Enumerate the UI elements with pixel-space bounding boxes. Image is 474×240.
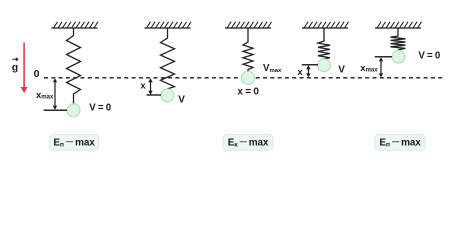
mass ball 5 xyxy=(392,50,405,63)
svg-text:0: 0 xyxy=(34,68,40,80)
svg-text:Eп — max: Eп — max xyxy=(53,137,95,149)
spring 2 xyxy=(161,28,175,89)
svg-text:Eп — max: Eп — max xyxy=(379,137,421,149)
svg-text:V: V xyxy=(178,95,185,106)
svg-text:Vmax: Vmax xyxy=(263,63,282,74)
mass ball 1 xyxy=(67,104,80,117)
box Ep max (left) xyxy=(49,135,98,151)
ceiling 3 xyxy=(225,22,272,28)
svg-text:V: V xyxy=(338,64,345,75)
svg-text:g: g xyxy=(12,62,18,74)
svg-text:x: x xyxy=(297,67,303,78)
spring 5 (fully compressed) xyxy=(391,28,406,50)
Xmax arrow 5 xyxy=(380,59,382,77)
spring 1 (stretched) xyxy=(67,28,81,104)
ceiling 4 xyxy=(302,22,349,28)
x arrow 2 xyxy=(150,80,152,93)
ceiling 5 xyxy=(375,22,422,28)
svg-text:x: x xyxy=(140,80,146,91)
tick at ball 5 level xyxy=(375,56,392,58)
box Ep max (right) xyxy=(375,135,425,151)
mass ball 3 xyxy=(242,72,255,85)
mass ball 2 xyxy=(161,89,174,102)
tick at ball 1 level xyxy=(44,109,67,111)
svg-text:x = 0: x = 0 xyxy=(237,87,259,98)
svg-text:V = 0: V = 0 xyxy=(89,102,111,113)
svg-text:V = 0: V = 0 xyxy=(418,51,440,62)
spring 4 (compressed) xyxy=(318,28,330,59)
mass ball 4 xyxy=(318,59,331,72)
svg-text:Eк — max: Eк — max xyxy=(228,137,269,149)
box Ek max (middle) xyxy=(223,135,273,151)
tick at ball 4 level xyxy=(302,64,318,66)
tick at ball 2 level xyxy=(147,94,162,96)
x arrow 4 xyxy=(307,67,309,77)
svg-text:xmax: xmax xyxy=(360,63,378,74)
Xmax arrow 1 xyxy=(54,80,56,108)
spring 3 (natural length) xyxy=(243,28,253,72)
svg-text:xmax: xmax xyxy=(36,90,54,101)
ceiling 2 xyxy=(145,22,192,28)
node 0 (equilibrium) dashed line xyxy=(44,77,444,79)
ceiling 1 xyxy=(52,22,99,28)
g arrow (red) xyxy=(23,43,25,88)
